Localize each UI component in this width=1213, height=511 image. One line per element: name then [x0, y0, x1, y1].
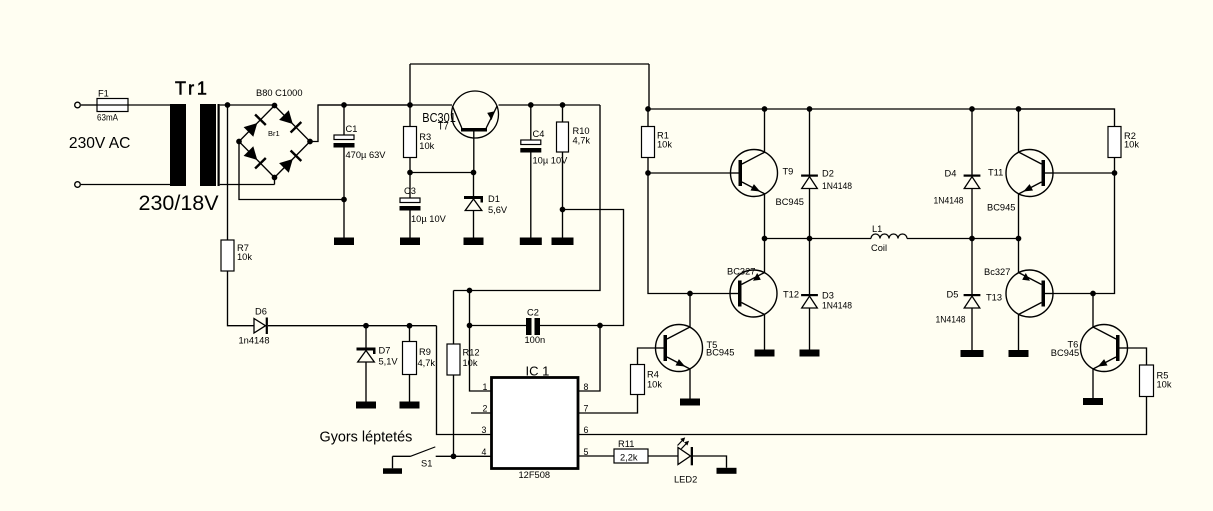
wire R10 tap to C2 right [563, 210, 624, 326]
zener diode D7 [357, 348, 376, 351]
node T11 collector rail junction [1016, 106, 1022, 112]
diode D6 cathode bar [266, 318, 268, 335]
node C2 right junction [597, 323, 603, 329]
capacitor C3 [400, 198, 420, 203]
transistor T11 BC945 [1006, 150, 1053, 197]
svg-text:1N4148: 1N4148 [936, 315, 966, 325]
node T9 emitter mid-rail junction [762, 236, 768, 242]
svg-text:T7: T7 [438, 121, 449, 133]
svg-text:T12: T12 [783, 290, 799, 300]
wire D5 bottom [971, 308, 973, 350]
resistor R5 [1140, 365, 1154, 397]
svg-text:5,6V: 5,6V [488, 205, 508, 215]
resistor R4 [631, 365, 645, 395]
wire T9 base [648, 172, 731, 174]
svg-text:12F508: 12F508 [519, 470, 551, 480]
transistor T9 BC945 [731, 150, 778, 197]
zener diode D1 [464, 196, 483, 199]
wire T6 base to R5 [1128, 348, 1147, 365]
svg-text:BC327: BC327 [727, 267, 755, 277]
wire T9 emitter riser [764, 194, 766, 239]
wire T9 collector riser [764, 109, 766, 152]
wire D2 bottom [809, 189, 811, 239]
svg-text:BC945: BC945 [1051, 348, 1079, 358]
transistor T7 BC301 body [452, 91, 499, 138]
svg-text:2: 2 [483, 404, 488, 414]
wire R1 bottom [647, 158, 649, 174]
node T11 base junction [1112, 170, 1118, 176]
svg-text:2,2k: 2,2k [620, 453, 638, 463]
wire T13 emitter riser up [1018, 239, 1020, 273]
svg-text:Gyors léptetés: Gyors léptetés [320, 429, 413, 445]
resistor R11 [614, 449, 648, 463]
bridge diode bottom-right (bottom to right corner) [279, 159, 293, 173]
bridge Br1 outline diamond [239, 106, 310, 178]
wire R9 bottom [409, 375, 411, 402]
switch S1 ground [383, 468, 402, 474]
transistor T5 BC945 [656, 325, 703, 372]
svg-text:10k: 10k [1157, 380, 1172, 390]
svg-text:B80 C1000: B80 C1000 [256, 88, 303, 98]
wire T12 emitter riser up [764, 239, 766, 273]
node C4 top junction [528, 102, 534, 108]
wire C3 top [409, 173, 411, 199]
node bridge top corner [272, 103, 278, 109]
wire S1 ground riser [392, 456, 394, 468]
node R3/C3 junction [407, 170, 413, 176]
resistor R12 [447, 344, 460, 375]
svg-text:D7: D7 [379, 346, 391, 356]
diode D4 [964, 175, 981, 177]
diode D5 [964, 294, 981, 296]
wire R3 top [409, 105, 411, 127]
transistor T13 BC327 [1006, 270, 1053, 317]
svg-text:D5: D5 [947, 290, 959, 300]
svg-text:10k: 10k [657, 140, 672, 150]
svg-text:R12: R12 [463, 348, 480, 358]
wire AC top from fuse to transformer [128, 104, 170, 106]
svg-text:D3: D3 [822, 291, 834, 301]
svg-text:1N4148: 1N4148 [822, 301, 852, 311]
capacitor C1 [334, 135, 354, 140]
svg-text:S1: S1 [421, 459, 432, 469]
resistor R9 [403, 342, 417, 375]
fuse F1 [97, 99, 128, 112]
ground T5 [680, 399, 700, 406]
wire R10 top [562, 105, 564, 122]
svg-text:Br1: Br1 [268, 129, 280, 138]
node C1 top junction [341, 102, 347, 108]
svg-text:10µ 10V: 10µ 10V [411, 214, 447, 224]
pin 2 stub wire [471, 412, 492, 414]
svg-text:7: 7 [584, 404, 589, 414]
node supply/C2-left riser junction [467, 288, 473, 294]
ground T13 [1009, 350, 1029, 357]
transistor T7 base bar [461, 128, 487, 132]
wire riser to top bypass rail [409, 64, 411, 105]
LED LED2 cathode bar [691, 447, 693, 465]
wire C2 left riser [469, 291, 471, 326]
svg-text:Coil: Coil [871, 243, 887, 253]
svg-text:10k: 10k [1124, 140, 1139, 150]
node C2 left junction [467, 323, 473, 329]
diode D3 [801, 294, 818, 296]
wire C1 top [343, 105, 345, 135]
wire mid rail left [765, 238, 872, 240]
svg-text:R10: R10 [573, 126, 590, 136]
svg-text:100n: 100n [525, 335, 546, 345]
node T11 emitter mid-rail junction [1016, 236, 1022, 242]
transistor T6 BC945 [1081, 325, 1128, 372]
wire R2 bottom [1114, 158, 1116, 174]
resistor R2 [1108, 127, 1121, 158]
wire T6 emitter to ground [1092, 369, 1094, 398]
svg-text:10k: 10k [647, 380, 662, 390]
wire T5 emitter to ground [689, 369, 691, 399]
svg-text:1: 1 [483, 382, 488, 392]
node D7 junction [363, 323, 369, 329]
svg-text:10k: 10k [419, 141, 434, 151]
ground R9 [400, 402, 420, 409]
node T9 collector rail junction [762, 106, 768, 112]
pin 7 wire to R4 [578, 395, 638, 414]
wire bridge bottom corner to AC [274, 178, 276, 185]
wire R11 to LED2 [648, 455, 678, 457]
svg-text:D4: D4 [945, 169, 957, 179]
ground T12 [755, 350, 775, 357]
svg-text:C2: C2 [527, 308, 539, 318]
wire S1 right contact to pin4 [436, 455, 492, 457]
wire T7 base lead down [473, 131, 475, 173]
wire T5 collector riser [689, 294, 691, 328]
svg-text:Tr1: Tr1 [175, 78, 210, 98]
ground minus rail [334, 238, 354, 246]
wire AC bottom from terminal to transformer [81, 184, 170, 186]
svg-text:230/18V: 230/18V [139, 191, 220, 215]
capacitor C2 plates [526, 318, 532, 335]
svg-text:8: 8 [584, 382, 589, 392]
wire bridge left corner to minus rail [239, 142, 344, 200]
wire top bypass rail right drop [648, 64, 650, 109]
wire R1 top [647, 109, 649, 127]
transistor T7 emitter arrow [487, 111, 495, 120]
IC U1 12F508 body [492, 378, 579, 469]
transformer Tr1 core line [218, 104, 220, 186]
wire T7 base to D1 [473, 173, 475, 197]
svg-text:F1: F1 [98, 89, 109, 99]
wire top bypass rail [410, 63, 649, 65]
node R12/pin4 junction [451, 453, 457, 459]
svg-text:IC 1: IC 1 [526, 364, 550, 379]
wire rail to R2 [1019, 109, 1115, 127]
wire S1 left contact [393, 455, 411, 457]
wire regulated rail drop at x600 [454, 105, 601, 291]
pin 5 wire to R11 [578, 455, 614, 457]
svg-text:4: 4 [482, 447, 487, 457]
wire C1 bottom [343, 148, 345, 200]
ground D5 [961, 350, 984, 357]
node R10 tap junction [560, 207, 566, 213]
svg-text:L1: L1 [872, 224, 882, 234]
node +rail/R3/T7 junction [407, 102, 413, 108]
node T5 collector junction [687, 291, 693, 297]
transformer Tr1 primary winding bar [170, 104, 186, 186]
wire mid rail right [907, 238, 1019, 240]
wire R1 junction down to T12 base [648, 173, 730, 294]
wire R7 from secondary top down [227, 105, 229, 240]
switch S1 lever [411, 447, 436, 456]
wire pin1 riser [470, 326, 492, 392]
node R10 top junction [560, 102, 566, 108]
resistor R10 [557, 122, 569, 152]
svg-text:D2: D2 [822, 169, 834, 179]
wire +rail into T7 collector [318, 104, 452, 106]
svg-text:6: 6 [584, 425, 589, 435]
wire T11 base to R2 [1053, 172, 1115, 174]
node T7 base junction [471, 170, 477, 176]
wire C2 line left [470, 325, 527, 327]
wire secondary bottom to bridge [220, 184, 275, 186]
wire R4 top to T5 base [638, 348, 656, 365]
bridge diode top-right (top to right corner) [279, 110, 293, 124]
LED LED2 emission arrows [678, 439, 684, 445]
wire C3 bottom [409, 211, 411, 238]
transistor T7 emitter lead [486, 106, 497, 128]
wire D4 bottom [971, 189, 973, 239]
svg-text:470µ 63V: 470µ 63V [346, 150, 387, 160]
svg-text:T11: T11 [988, 168, 1003, 178]
node R1 bottom junction [645, 170, 651, 176]
svg-text:1N4148: 1N4148 [934, 196, 964, 206]
wire minus rail to ground [343, 200, 345, 238]
wire regulated rail from T7 emitter [499, 104, 601, 106]
svg-text:3: 3 [482, 425, 487, 435]
svg-text:1N4148: 1N4148 [822, 181, 852, 191]
ground T6 [1083, 398, 1103, 405]
svg-text:5,1V: 5,1V [379, 357, 399, 367]
node secondary-top/R7 junction [225, 102, 231, 108]
svg-text:BC945: BC945 [776, 197, 804, 207]
wire D6 to D7/R9/pin3 [268, 325, 437, 327]
svg-text:10k: 10k [463, 358, 478, 368]
wire AC top from terminal to fuse [81, 104, 97, 106]
svg-text:BC945: BC945 [987, 203, 1015, 213]
ground D1 [464, 238, 484, 246]
svg-text:T13: T13 [986, 293, 1002, 303]
LED LED2 triangle [678, 448, 691, 465]
wire R3 bottom to base node [409, 158, 411, 173]
ground LED2 [717, 468, 737, 474]
ground C3 [400, 238, 420, 246]
node D2 mid-rail junction [807, 236, 813, 242]
wire pin8 riser [578, 326, 600, 392]
ground R10 [552, 238, 574, 246]
svg-text:C3: C3 [404, 186, 416, 196]
node C1/minus-rail junction [341, 197, 347, 203]
ground D3 [800, 350, 820, 357]
node D2 rail junction [807, 106, 813, 112]
resistor R7 [221, 240, 234, 271]
wire LED2 to ground [693, 456, 727, 468]
wire D4 top [971, 109, 973, 175]
svg-text:4,7k: 4,7k [418, 358, 436, 368]
node D4 rail junction [969, 106, 975, 112]
node T6 collector junction [1090, 291, 1096, 297]
node bridge right corner [307, 139, 313, 145]
wire pin3 drop [437, 326, 492, 435]
wire D7 bottom [365, 362, 367, 402]
wire T13 base from R2 drop [1053, 173, 1115, 294]
wire bridge right corner to + rail [310, 105, 410, 142]
svg-text:BC945: BC945 [706, 348, 734, 358]
pin 6 long wire to R5 [578, 397, 1147, 435]
svg-text:R11: R11 [618, 439, 634, 449]
wire T6 collector riser [1092, 294, 1094, 328]
node bridge bottom corner [272, 175, 278, 181]
svg-text:LED2: LED2 [674, 475, 697, 485]
svg-text:D6: D6 [255, 307, 267, 317]
svg-text:10k: 10k [237, 252, 252, 262]
wire base node horizontal [410, 172, 474, 174]
wire R7 bottom down to D6 corner [228, 271, 255, 326]
svg-text:D1: D1 [488, 194, 500, 204]
wire R12 bottom to pin4 line [453, 375, 455, 456]
diode D6 triangle [254, 319, 266, 334]
wire D5 top [971, 239, 973, 295]
svg-text:C4: C4 [533, 129, 545, 139]
svg-text:230V AC: 230V AC [69, 135, 131, 152]
wire C4 top [530, 105, 532, 140]
node bridge left corner [236, 139, 242, 145]
svg-text:1n4148: 1n4148 [239, 336, 270, 346]
bridge diode bottom-left (left to bottom) [244, 146, 258, 160]
wire supply into R12 top [453, 291, 455, 345]
wire T11 emitter riser [1018, 194, 1020, 239]
node R1 top junction [645, 106, 651, 112]
wire D3 top [809, 239, 811, 295]
wire C4 bottom [530, 153, 532, 238]
node R9 junction [407, 323, 413, 329]
svg-text:T9: T9 [783, 167, 794, 177]
node D4/D5 mid-rail junction [969, 236, 975, 242]
svg-text:63mA: 63mA [97, 113, 119, 123]
transistor T12 BC327 [730, 270, 777, 317]
terminal circle top-left AC input [75, 102, 81, 108]
resistor R3 [404, 127, 417, 158]
wire T11 collector riser [1018, 109, 1020, 152]
ground C4 [520, 238, 542, 246]
ground D7 [356, 402, 376, 409]
wire +motor rail [648, 108, 1115, 110]
capacitor C4 [521, 140, 541, 145]
wire R9 top [409, 326, 411, 342]
transformer Tr1 secondary winding bar [200, 104, 216, 186]
diode D2 [801, 175, 818, 177]
transistor T7 collector lead [452, 106, 462, 128]
svg-text:R4: R4 [647, 370, 659, 380]
wire D7 top [365, 326, 367, 348]
svg-text:C1: C1 [346, 124, 358, 134]
inductor L1 coil [871, 234, 907, 239]
wire T13 collector to ground [1018, 315, 1020, 351]
wire T12 collector to ground [764, 315, 766, 350]
svg-text:Bc327: Bc327 [984, 267, 1010, 277]
wire C2 line right [540, 325, 600, 327]
terminal circle bottom-left AC input [75, 182, 81, 188]
svg-text:4,7k: 4,7k [573, 136, 591, 146]
wire R10 bottom [562, 152, 564, 238]
svg-text:R9: R9 [419, 347, 431, 357]
wire D2 top [809, 109, 811, 175]
wire D1 bottom [473, 211, 475, 238]
resistor R1 [642, 127, 655, 158]
bridge diode top-left (left corner to top) [244, 123, 258, 137]
wire D3 bottom [809, 308, 811, 350]
wire secondary top to bridge [220, 104, 275, 106]
